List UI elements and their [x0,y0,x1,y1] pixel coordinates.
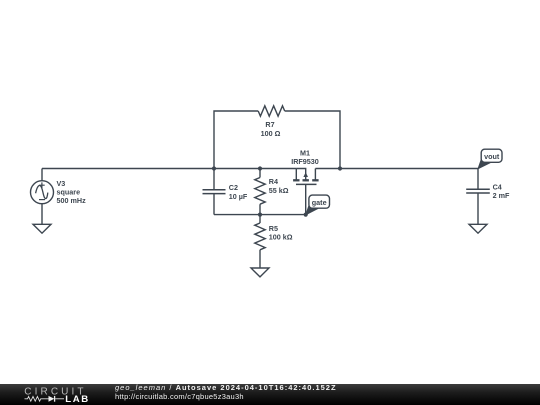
node D junction dot [258,213,262,217]
resistor R5 [255,215,265,268]
wire [42,168,296,170]
resistor R7 [258,106,285,116]
R4 value label [269,177,289,195]
R7 value label [261,120,281,138]
svg-text:55 kΩ: 55 kΩ [269,186,289,195]
wire [285,111,340,169]
R5 value label [269,224,293,242]
svg-text:2 mF: 2 mF [493,191,510,200]
ground [251,268,269,277]
node gate junction junction dot [304,213,308,217]
svg-text:vout: vout [484,152,500,161]
node B junction dot [258,166,262,170]
C4 value label [493,182,510,200]
resistor R4 [255,169,265,215]
ground [33,224,51,233]
svg-text:gate: gate [312,198,327,207]
M1 value label [291,149,319,167]
wire [214,111,258,169]
svg-text:IRF9530: IRF9530 [291,157,319,166]
C2 value label [229,183,248,201]
capacitor C4 [466,169,490,225]
ground [469,224,487,233]
wire [315,168,478,170]
node gate flag [306,195,330,215]
voltage source V3 [31,169,54,225]
capacitor C2 [203,169,226,215]
node C junction dot [338,166,342,170]
svg-text:100 kΩ: 100 kΩ [269,232,293,241]
footer credit text [115,384,337,401]
svg-text:500 mHz: 500 mHz [57,196,87,205]
node A junction dot [212,166,216,170]
transistor M1 IRF9530 [293,169,319,215]
wire [214,214,306,216]
logo diode glyph [49,396,55,402]
V3 value label [57,179,87,205]
svg-text:100 Ω: 100 Ω [261,129,281,138]
svg-text:LAB: LAB [65,394,90,405]
node vout flag [478,149,502,169]
footer bar [0,384,540,405]
CircuitLab logo [0,384,100,405]
svg-text:10 µF: 10 µF [229,192,248,201]
logo resistor glyph [25,396,49,401]
